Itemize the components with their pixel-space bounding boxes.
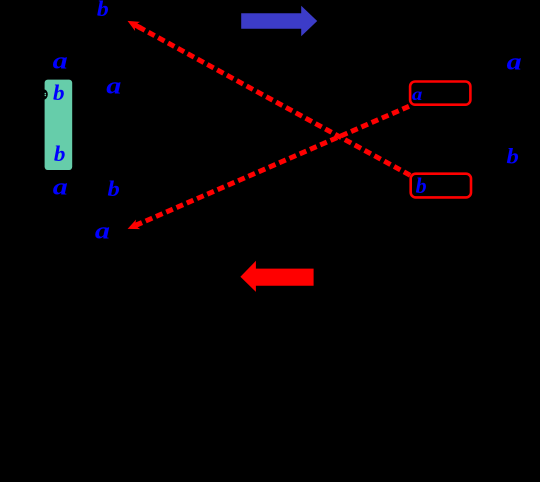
red fat arrow (middle, pointing left) xyxy=(240,261,313,292)
node a in rule box a xyxy=(412,85,423,104)
rule box a (red rounded rectangle) xyxy=(410,82,470,105)
svg-text:b: b xyxy=(97,0,109,21)
node b far right xyxy=(506,145,518,169)
svg-text:a: a xyxy=(412,85,423,104)
svg-text:b: b xyxy=(53,80,65,104)
rule box b (red rounded rectangle) xyxy=(411,174,471,198)
node a right child xyxy=(106,72,121,98)
svg-text:b: b xyxy=(54,141,66,165)
node b right of a xyxy=(107,177,119,201)
svg-text:a: a xyxy=(106,72,121,98)
svg-text:b: b xyxy=(506,145,518,169)
blue fat arrow (top, pointing right) xyxy=(241,6,317,37)
svg-text:b: b xyxy=(107,177,119,201)
node a left child xyxy=(53,48,68,74)
svg-text:b: b xyxy=(416,173,427,198)
svg-text:a: a xyxy=(53,173,68,199)
svg-text:a: a xyxy=(53,48,68,74)
node a bottom of left tree xyxy=(95,218,110,244)
wire: dashed red arrow from box b to top letter b xyxy=(125,16,410,175)
svg-text:a: a xyxy=(507,48,522,74)
node a below green box xyxy=(53,173,68,199)
wire: dashed red arrow from box a to bottom letter a xyxy=(126,106,409,233)
node b in green box (top) xyxy=(53,80,65,104)
svg-text:a: a xyxy=(95,218,110,244)
node b top-left tree root xyxy=(97,0,109,21)
node b in green box (bottom) xyxy=(54,141,66,165)
black arrowhead notch overlapping green box edge xyxy=(39,89,47,99)
highlight box (green) around left subtree letters b,b xyxy=(45,80,73,170)
node a far right top xyxy=(507,48,522,74)
